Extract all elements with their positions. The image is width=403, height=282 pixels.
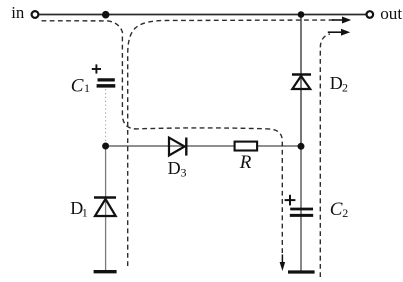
svg-text:1: 1 — [84, 81, 90, 95]
svg-text:1: 1 — [82, 205, 88, 219]
svg-text:2: 2 — [342, 81, 348, 95]
svg-text:D: D — [168, 158, 181, 178]
svg-text:D: D — [330, 73, 343, 93]
svg-text:C: C — [330, 199, 343, 220]
svg-text:out: out — [380, 4, 402, 23]
svg-text:R: R — [239, 152, 252, 173]
svg-text:in: in — [11, 3, 25, 22]
svg-text:2: 2 — [342, 206, 348, 220]
svg-text:C: C — [71, 75, 84, 96]
svg-text:3: 3 — [181, 166, 187, 180]
